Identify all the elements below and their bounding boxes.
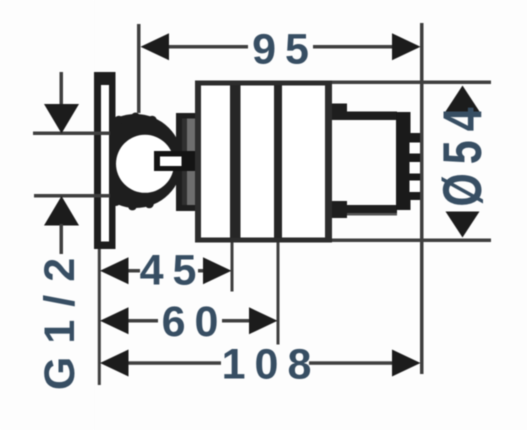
G1/2 text [36,245,84,390]
right spigot neck top edge [332,112,397,121]
dimension 60 line and arrows [100,307,278,334]
adapter plate between handle and body [176,113,197,211]
dia54 top extension line [332,81,491,85]
svg-text:45: 45 [140,247,206,295]
svg-text:G1/2: G1/2 [36,245,84,390]
dimension 45 text [140,247,206,295]
dia54 bottom extension line [332,239,491,243]
spigot end rim [396,112,411,210]
dia54 up arrow [446,86,480,112]
svg-text:Ø54: Ø54 [432,98,493,206]
handle knob (side view, knurled) [0,0,183,430]
right spigot shoulder bottom [332,201,347,218]
extension line left reference (wall) [98,249,101,385]
dimension 108 text [222,341,321,389]
G1/2 up arrow [44,196,79,254]
main body (concealed unit) [195,81,332,243]
svg-text:60: 60 [162,298,228,346]
svg-text:95: 95 [252,26,318,74]
handle hub white circle [116,135,174,193]
dimension 95 line and arrows [141,33,421,60]
extension line 60 right [277,243,280,345]
dimension 45 line and arrows [100,257,232,284]
G1/2 lower line [34,194,110,198]
extension line 95 left [137,24,141,113]
dia54 down arrow [446,212,480,238]
threaded nub with section squares [410,133,424,200]
extension line 45 right [231,243,234,292]
valve stem into handle [154,151,199,171]
G1/2 upper line [33,132,110,136]
body internal section line 1 [230,85,241,238]
extension line right (95/108) [420,23,424,374]
svg-text:108: 108 [222,341,321,389]
dimension 108 line and arrows [100,350,421,377]
G1/2 down arrow [44,72,79,134]
dia54 text [432,98,493,206]
body internal section line 2 [274,85,282,238]
wall flange plate [94,72,116,249]
right spigot shoulder top [332,104,347,120]
dimension 95 text [252,26,318,74]
right spigot neck bottom edge [332,205,397,216]
dimension 60 text [162,298,228,346]
